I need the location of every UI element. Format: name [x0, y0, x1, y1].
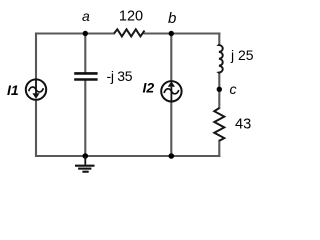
capacitor -j35: [74, 73, 97, 79]
svg-text:120: 120: [119, 9, 143, 25]
wire: [84, 34, 86, 73]
current source I2: [161, 81, 181, 102]
wire: [36, 155, 219, 157]
node c: [217, 87, 222, 92]
ground: [75, 156, 95, 172]
wire: [218, 141, 220, 156]
wire: [36, 32, 114, 34]
wire: [218, 73, 220, 108]
wire: [170, 102, 172, 156]
svg-text:a: a: [82, 8, 90, 24]
svg-text:I1: I1: [7, 82, 19, 98]
svg-text:43: 43: [235, 117, 251, 133]
node b: [169, 31, 174, 36]
wire: [35, 34, 37, 80]
svg-text:b: b: [168, 10, 176, 27]
wire: [35, 100, 37, 156]
svg-text:c: c: [230, 81, 237, 97]
resistor 120: [114, 29, 145, 36]
junction dot (I2 branch / bottom wire): [169, 153, 175, 159]
wire: [218, 34, 220, 46]
wire: [84, 81, 86, 156]
svg-text:I2: I2: [143, 80, 155, 96]
wire: [145, 32, 220, 34]
resistor 43: [214, 108, 224, 141]
svg-text:-j 35: -j 35: [107, 68, 133, 84]
wire: [170, 34, 172, 81]
junction dot (capacitor branch / bottom wire): [83, 153, 89, 159]
svg-text:j 25: j 25: [230, 47, 254, 63]
inductor j25: [219, 45, 223, 73]
node a: [83, 31, 88, 36]
current source I1: [26, 79, 46, 100]
